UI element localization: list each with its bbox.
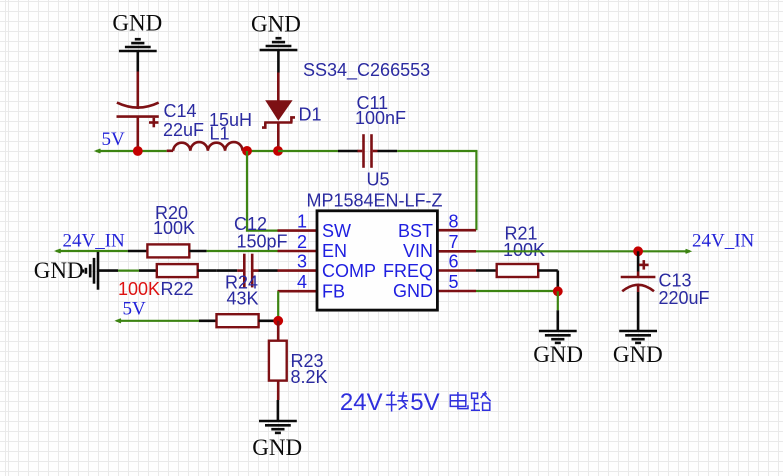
svg-text:GND: GND — [393, 281, 433, 301]
svg-text:100K: 100K — [503, 240, 545, 260]
svg-text:FB: FB — [322, 282, 345, 302]
capacitor C12 label — [234, 214, 288, 251]
resistor R23 (8.2K) — [269, 321, 328, 400]
svg-text:5V: 5V — [102, 129, 126, 150]
net label 5V (bottom) — [117, 299, 146, 323]
svg-text:EN: EN — [322, 241, 347, 261]
ground GND (top, above D1) — [251, 12, 301, 73]
hanzi zhuan — [386, 391, 397, 411]
wire R20 to EN — [207, 250, 278, 252]
resistor R21 (100K) — [476, 224, 558, 292]
svg-text:L1: L1 — [210, 124, 230, 144]
wire 24V_IN to R20 — [56, 250, 128, 252]
svg-text:100K: 100K — [153, 218, 195, 238]
capacitor C14 (polarized 22uF) — [117, 72, 205, 152]
svg-text:5V: 5V — [410, 389, 439, 416]
svg-text:6: 6 — [449, 252, 459, 272]
svg-text:7: 7 — [449, 232, 459, 252]
svg-text:150pF: 150pF — [237, 232, 288, 252]
svg-text:4: 4 — [297, 272, 307, 292]
svg-text:22uF: 22uF — [163, 120, 204, 140]
net label 24V_IN (right) — [686, 231, 755, 254]
wire R22 to C12 — [216, 269, 237, 272]
wire L1 to D1 — [243, 150, 279, 152]
hanzi dian — [450, 392, 468, 409]
resistor R24 (43K) — [199, 273, 278, 328]
ground GND (below R21) — [533, 310, 583, 367]
svg-text:GND: GND — [251, 12, 301, 37]
junction (D1 / 5V wire) — [273, 146, 283, 156]
ground GND (left) — [34, 252, 118, 290]
capacitor C13 (polarized 220uF) — [621, 251, 710, 331]
net label 24V_IN (left) — [56, 231, 125, 253]
wire D1 to C11 — [278, 150, 338, 152]
wire FB net (down to R24/R23 junction) — [277, 291, 279, 321]
svg-text:R22: R22 — [161, 279, 194, 299]
wire SW net (to L1/D1 junction) — [247, 151, 278, 231]
svg-text:GND: GND — [252, 435, 302, 460]
diode D1 (SS34 schottky) — [262, 60, 430, 151]
junction (pin5 / R21) — [553, 286, 563, 296]
wire GND to R22 — [118, 270, 139, 272]
wire C11 to BST — [397, 151, 476, 230]
wire C12 to COMP — [259, 269, 278, 272]
junction (R24 / FB / R23) — [273, 316, 283, 326]
svg-text:100nF: 100nF — [355, 108, 406, 128]
svg-text:100K: 100K — [118, 279, 160, 299]
svg-text:FREQ: FREQ — [383, 261, 433, 281]
svg-text:GND: GND — [112, 11, 162, 36]
wire junction down — [557, 291, 559, 310]
svg-text:GND: GND — [533, 342, 583, 367]
svg-text:43K: 43K — [227, 289, 259, 309]
resistor R20 (100K) — [128, 203, 207, 257]
wire VIN to 24V_IN (right) — [476, 250, 690, 252]
svg-text:GND: GND — [34, 258, 84, 283]
svg-text:GND: GND — [613, 342, 663, 367]
svg-text:1: 1 — [297, 212, 307, 232]
svg-text:8: 8 — [449, 212, 459, 232]
junction (VIN / C13) — [633, 246, 643, 256]
svg-text:SW: SW — [322, 221, 351, 241]
inductor L1 (15uH) — [167, 110, 252, 151]
ground GND (top, above C14) — [112, 11, 162, 72]
svg-text:C14: C14 — [164, 101, 197, 121]
svg-text:5: 5 — [449, 272, 459, 292]
svg-text:220uF: 220uF — [659, 288, 710, 308]
wire 5V to R24 — [117, 320, 199, 322]
ground GND (below R23) — [252, 400, 302, 460]
svg-text:8.2K: 8.2K — [291, 367, 328, 387]
ground GND (below C13) — [613, 331, 663, 367]
svg-text:U5: U5 — [367, 170, 390, 190]
svg-text:24V: 24V — [340, 389, 383, 416]
title 24V to 5V circuit — [340, 389, 491, 416]
capacitor C11 (100nF) — [338, 93, 406, 168]
svg-text:D1: D1 — [299, 105, 322, 125]
wire 5V row — [96, 150, 167, 152]
wire GND pin5 — [476, 290, 558, 292]
svg-text:COMP: COMP — [322, 261, 376, 281]
svg-text:24V_IN: 24V_IN — [692, 231, 755, 252]
svg-text:SS34_C266553: SS34_C266553 — [303, 60, 430, 81]
junction (C14 / 5V wire) — [133, 146, 143, 156]
svg-text:5V: 5V — [123, 299, 147, 320]
svg-text:BST: BST — [398, 221, 433, 241]
svg-text:3: 3 — [297, 252, 307, 272]
hanzi lu — [471, 393, 480, 410]
net label 5V (top left) — [96, 129, 125, 153]
svg-text:MP1584EN-LF-Z: MP1584EN-LF-Z — [307, 190, 443, 210]
resistor R22 (100K) — [118, 264, 216, 299]
svg-text:VIN: VIN — [403, 241, 433, 261]
svg-text:24V_IN: 24V_IN — [63, 231, 126, 252]
capacitor C12 (150pF) — [237, 254, 258, 288]
IC U5 MP1584EN-LF-Z — [278, 170, 477, 311]
svg-text:2: 2 — [297, 232, 307, 252]
junction (L1 / SW net) — [242, 146, 252, 156]
